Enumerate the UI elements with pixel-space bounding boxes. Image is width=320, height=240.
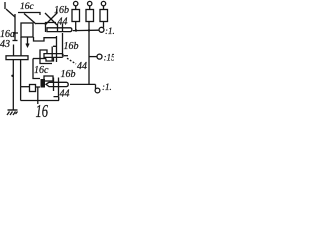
junction dot R2	[88, 29, 90, 31]
junction tick on left wire	[13, 40, 18, 42]
wire from mid paddle	[64, 55, 68, 57]
resistor R3 lead	[103, 6, 105, 10]
box lower-left top edge	[33, 58, 46, 60]
wire vertical mid	[56, 36, 58, 62]
wire from bottom paddle to terminal 3	[70, 83, 96, 85]
wire step from coil A	[34, 37, 57, 41]
svg-text::1.: :1.	[102, 82, 112, 92]
terminal 3 stem	[95, 84, 97, 89]
heel to yoke wire	[36, 86, 41, 88]
resistor R1 lead	[75, 6, 77, 10]
capacitor 43 plate	[6, 56, 28, 60]
resistor R2 terminal circle	[88, 1, 92, 5]
terminal 2 wire	[89, 56, 97, 58]
svg-text:16c: 16c	[34, 65, 49, 76]
terminal 2 circle	[97, 54, 102, 59]
svg-text:16b: 16b	[54, 5, 69, 16]
wire vertical left	[14, 14, 16, 41]
coil R-A rectangle	[21, 23, 33, 37]
svg-text::15: :15	[104, 53, 115, 63]
svg-text::1.: :1.	[105, 26, 114, 36]
armature paddle mid relay	[44, 54, 63, 58]
small inner box	[44, 76, 53, 81]
pole line 2 bottom relay	[58, 78, 60, 89]
terminal 3 circle	[95, 88, 100, 93]
relay yoke block	[41, 79, 46, 88]
switch arm 16c	[6, 9, 15, 17]
wire capacitor to loop corner	[20, 60, 22, 87]
resistor R2 body	[86, 10, 94, 22]
wire from coil through capacitor	[20, 37, 22, 56]
switch arm lower diagonal	[24, 14, 36, 25]
pole wire	[52, 46, 57, 61]
resistor R1 terminal circle	[74, 1, 78, 5]
pole tick 2	[62, 24, 64, 32]
box lower-left left edge	[33, 59, 40, 79]
coil box top relay	[46, 23, 57, 33]
heel piece box	[30, 85, 36, 92]
resistor R1 body	[72, 10, 80, 22]
resistor R3 lower lead	[103, 22, 105, 28]
resistor R2 long lead down	[88, 22, 90, 85]
contact X	[45, 13, 57, 25]
ground symbol	[7, 110, 18, 115]
svg-text:43: 43	[0, 39, 10, 50]
resistor R1 lower lead	[75, 22, 77, 31]
coil box mid relay	[40, 50, 52, 64]
junction dot on ground wire	[11, 75, 13, 77]
resistor R2 lead	[89, 6, 91, 10]
pole 2 hook	[54, 88, 59, 97]
armature paddle top relay	[47, 28, 72, 32]
armature paddle bottom relay	[46, 82, 68, 86]
contact stem	[56, 9, 58, 14]
wire under label 16c	[18, 13, 40, 16]
svg-text:16c: 16c	[20, 2, 35, 12]
terminal 1 circle	[99, 27, 104, 32]
loop left edge	[20, 87, 22, 101]
leader arrow 16a	[13, 32, 18, 34]
bottom wire	[21, 97, 59, 101]
wire loop to relay 16	[21, 86, 30, 88]
svg-text:44: 44	[60, 89, 70, 100]
step corner	[46, 58, 54, 62]
junction dot R1	[75, 29, 77, 31]
capacitor lead left	[13, 45, 15, 57]
wire to contact	[36, 23, 47, 25]
ground wire	[12, 60, 14, 111]
wire from paddle to terminal 1	[73, 29, 99, 31]
resistor R3 terminal circle	[101, 1, 105, 5]
pole tick 1	[57, 24, 59, 32]
box bottom-left lead	[37, 87, 39, 104]
svg-text:44: 44	[77, 61, 87, 72]
svg-text:16: 16	[36, 102, 49, 120]
wire vertical mid2	[62, 33, 64, 56]
resistor R3 body	[100, 10, 108, 22]
svg-text:16b: 16b	[64, 41, 79, 52]
svg-text:16b: 16b	[61, 69, 76, 80]
pole line 1 bottom relay	[53, 78, 55, 92]
leader dashes to 44	[67, 58, 76, 64]
switch fixed contact tick	[4, 2, 6, 9]
coil R-A bottom lead	[26, 37, 29, 47]
